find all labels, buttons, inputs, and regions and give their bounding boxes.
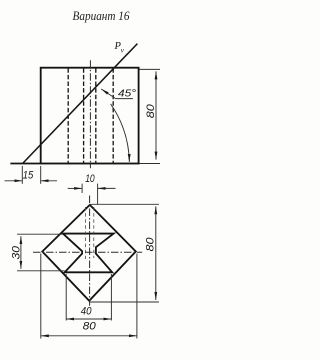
svg-text:40: 40 bbox=[81, 306, 93, 318]
dimension 10: extension lines bbox=[82, 184, 98, 205]
dimension 15: arrows outside bbox=[5, 180, 58, 182]
dimension 30: dimension line bbox=[20, 236, 22, 269]
hidden line x83.6 bbox=[83, 68, 85, 163]
cutting plane trace Pv bbox=[23, 44, 138, 164]
plan slot bowtie outline bbox=[63, 234, 114, 273]
title Вариант 16 bbox=[73, 8, 130, 23]
base line extension left bbox=[10, 163, 40, 165]
label 45 degrees bbox=[118, 87, 136, 99]
plan vertical centerline bbox=[89, 196, 91, 306]
dimension 30: extension lines bbox=[17, 234, 65, 271]
dimension 80 right plan: text bbox=[144, 237, 156, 252]
dimension 80 bottom: dimension line bbox=[41, 335, 137, 337]
dimension 15: extension lines bbox=[22, 166, 40, 184]
svg-text:45°: 45° bbox=[118, 87, 136, 99]
dimension 10: text bbox=[85, 173, 95, 185]
hidden line x68 bbox=[67, 68, 69, 163]
dimension 30: text bbox=[11, 245, 23, 259]
dimension 80 right plan: extension lines bbox=[90, 204, 159, 302]
plan horizontal centerline bbox=[33, 251, 142, 253]
svg-text:80: 80 bbox=[144, 237, 156, 252]
plan construction line right bbox=[93, 207, 95, 258]
dimension 80 right plan: dimension line bbox=[155, 206, 157, 300]
hidden line x95.8 bbox=[95, 68, 97, 163]
dimension 40: dimension line bbox=[66, 318, 111, 320]
svg-text:30: 30 bbox=[11, 245, 23, 259]
dimension 80 bottom: extension lines bbox=[41, 254, 137, 339]
front view centerline bbox=[89, 60, 91, 168]
front view outline rectangle bbox=[41, 68, 139, 164]
svg-text:80: 80 bbox=[83, 320, 97, 332]
plan view diamond outline bbox=[42, 205, 136, 301]
dimension 80 front height: text bbox=[145, 103, 157, 118]
dimension 80 front height: dimension line with arrows bbox=[155, 71, 157, 159]
dimension 80 front height: extension lines bbox=[140, 69, 161, 163]
svg-text:15: 15 bbox=[23, 170, 34, 182]
dimension 40: extension lines bbox=[66, 274, 111, 321]
plan construction line left bbox=[84, 207, 86, 259]
dimension 10: arrows outside bbox=[68, 187, 116, 189]
dimension 80 bottom: text bbox=[83, 320, 97, 332]
dimension 40: text bbox=[81, 306, 93, 318]
angle dimension arc bbox=[111, 104, 130, 162]
dimension 15: text bbox=[23, 170, 34, 182]
angle leader arrow to trace bbox=[101, 89, 133, 99]
svg-text:Вариант 16: Вариант 16 bbox=[73, 8, 130, 23]
hidden line x113.2 bbox=[112, 68, 114, 163]
svg-text:10: 10 bbox=[85, 173, 95, 185]
label Pv bbox=[114, 41, 125, 55]
svg-text:v: v bbox=[121, 46, 125, 55]
svg-text:80: 80 bbox=[145, 103, 157, 118]
